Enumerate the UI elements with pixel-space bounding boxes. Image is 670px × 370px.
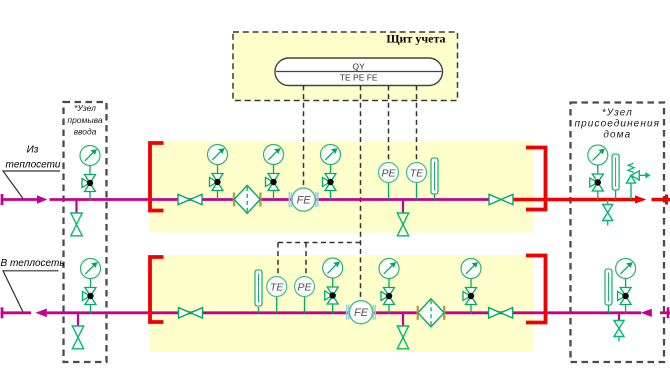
safety valve SV1 <box>627 163 651 199</box>
svg-text:Из: Из <box>27 145 39 156</box>
controller QY stadium <box>275 58 443 86</box>
supply red arrow <box>635 195 646 203</box>
svg-text:TE PE FE: TE PE FE <box>340 73 378 83</box>
svg-text:*Узел: *Узел <box>74 103 96 113</box>
ball valve V1 <box>178 194 202 204</box>
signal line to PE1 <box>388 86 390 163</box>
thermowell T1 <box>431 158 438 200</box>
gauge assembly M2 <box>208 145 228 200</box>
ball valve V4 <box>489 308 513 318</box>
supply flow arrow <box>37 195 47 203</box>
svg-text:*Узел: *Узел <box>602 107 633 118</box>
leader line supply <box>3 171 60 199</box>
left unit box (Узел промыва ввода) <box>64 102 107 362</box>
drain stem D3 <box>607 200 609 206</box>
drain stem D6 <box>618 313 620 321</box>
svg-text:QY: QY <box>353 61 366 71</box>
return pipe magenta <box>2 307 670 318</box>
supply pipe magenta <box>2 194 490 205</box>
svg-text:В теплосеть: В теплосеть <box>1 258 65 269</box>
drain stem D5 <box>402 313 404 327</box>
red bracket supply right <box>526 148 546 210</box>
gauge assembly M6 <box>81 259 101 314</box>
ball valve V2 <box>489 194 513 204</box>
gauge assembly M10 <box>616 259 636 314</box>
return flow arrow right <box>641 309 652 317</box>
pressure sensor PE1 <box>379 163 399 200</box>
gauge assembly M7 <box>323 258 343 313</box>
drain valve D1 <box>71 213 82 236</box>
return: drain stem D4 <box>77 313 79 327</box>
gauge assembly M3 <box>264 145 284 200</box>
label Узел промыва ввода <box>67 103 102 136</box>
flow element FE1 <box>289 188 318 211</box>
yellow band supply line <box>149 142 534 233</box>
svg-text:TE: TE <box>270 281 284 293</box>
supply pipe red outlet <box>512 195 670 205</box>
temperature sensor TE2 <box>267 277 287 313</box>
thermowell T3 <box>255 270 262 313</box>
drain valve D2 <box>397 213 408 236</box>
label Узел присоединения дома <box>575 107 661 140</box>
signal line trunk to FE2 <box>360 86 362 301</box>
svg-text:дома: дома <box>603 130 631 141</box>
svg-text:промыва: промыва <box>67 115 102 125</box>
strainer F1 <box>233 185 262 213</box>
pressure sensor PE2 <box>295 277 315 313</box>
drain valve D6 <box>614 321 624 342</box>
svg-text:теплосети: теплосети <box>6 160 61 171</box>
right unit box (Узел присоединения дома) <box>571 103 665 363</box>
svg-text:TE: TE <box>410 167 424 179</box>
gauge assembly M8 <box>379 259 399 314</box>
metering panel box (Щит учета) <box>233 32 458 101</box>
svg-text:PE: PE <box>297 281 312 293</box>
flow element FE2 <box>347 301 376 324</box>
red bracket supply left <box>150 143 164 211</box>
signal line to TE1 <box>416 86 418 163</box>
temperature sensor TE1 <box>407 163 427 200</box>
yellow band return line <box>149 255 534 351</box>
red bracket return left <box>150 257 164 322</box>
thermowell T4 <box>605 269 612 313</box>
drain valve D4 <box>72 326 83 349</box>
drain valve D3 <box>603 205 613 226</box>
signal stub to TE2 <box>277 243 279 277</box>
strainer F2 <box>417 299 446 327</box>
return flow arrow left <box>35 309 46 318</box>
gauge assembly M9 <box>461 259 481 314</box>
svg-text:Щит учета: Щит учета <box>386 31 445 45</box>
red bracket return right <box>526 256 546 323</box>
thermowell T2 <box>612 154 619 200</box>
leader line return <box>3 271 59 312</box>
gauge assembly M5 <box>588 145 608 200</box>
svg-text:PE: PE <box>381 167 396 179</box>
gauge assembly M1 <box>80 146 100 201</box>
svg-text:ввода: ввода <box>74 126 97 136</box>
signal line to FE1 <box>303 86 305 188</box>
drain valve D5 <box>397 326 408 349</box>
signal branch horizontal <box>278 242 361 244</box>
drain stem D1 <box>75 200 77 214</box>
drain stem D2 <box>402 200 404 214</box>
label Из теплосети <box>6 145 61 171</box>
svg-text:присоединения: присоединения <box>575 119 661 130</box>
gauge assembly M4 <box>321 145 341 200</box>
ball valve V3 <box>179 308 203 318</box>
signal stub to PE2 <box>305 243 307 277</box>
